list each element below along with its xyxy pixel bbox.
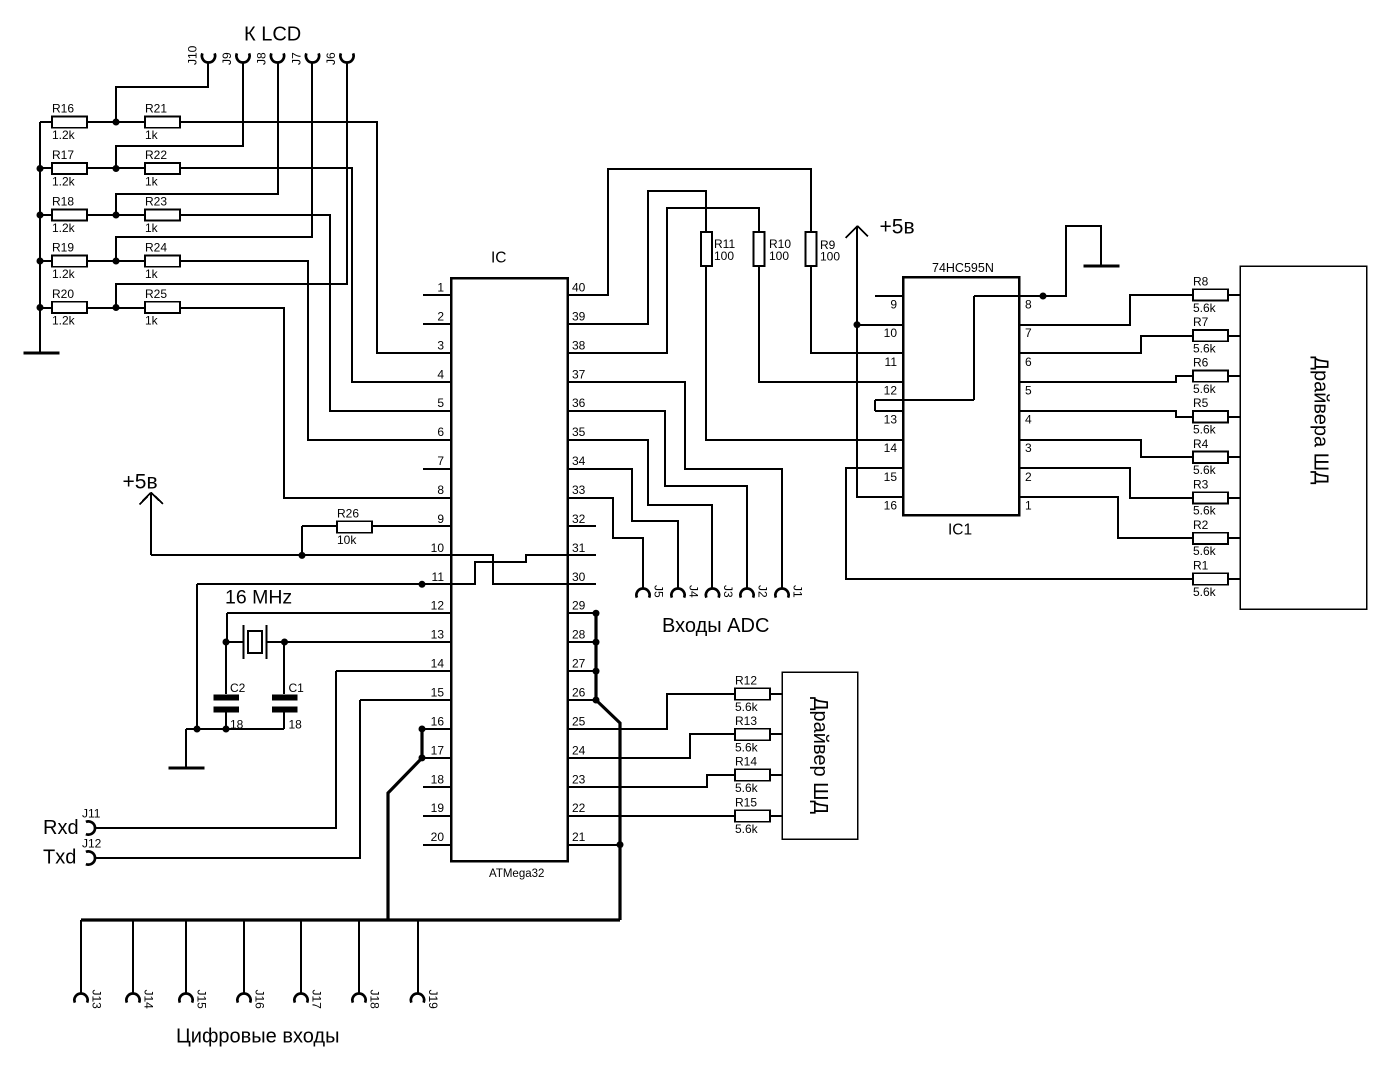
svg-text:R12: R12	[735, 674, 757, 688]
svg-text:R24: R24	[145, 241, 167, 255]
svg-text:R22: R22	[145, 148, 167, 162]
svg-text:74HC595N: 74HC595N	[932, 261, 994, 275]
svg-text:25: 25	[572, 714, 586, 728]
svg-text:39: 39	[572, 309, 586, 323]
svg-text:22: 22	[572, 801, 586, 815]
svg-text:К LCD: К LCD	[244, 24, 301, 46]
svg-text:Входы ADC: Входы ADC	[662, 615, 769, 637]
svg-text:1k: 1k	[145, 313, 159, 327]
svg-text:5.6k: 5.6k	[735, 781, 759, 795]
svg-text:R18: R18	[52, 195, 74, 209]
svg-text:5.6k: 5.6k	[1193, 463, 1217, 477]
svg-text:37: 37	[572, 367, 586, 381]
svg-text:27: 27	[572, 657, 586, 671]
svg-text:5.6k: 5.6k	[735, 822, 759, 836]
svg-text:5.6k: 5.6k	[1193, 504, 1217, 518]
svg-text:5: 5	[437, 396, 444, 410]
svg-text:23: 23	[572, 772, 586, 786]
svg-text:R14: R14	[735, 755, 757, 769]
svg-text:1.2k: 1.2k	[52, 174, 76, 188]
svg-text:J8: J8	[255, 52, 269, 65]
svg-text:R15: R15	[735, 796, 757, 810]
svg-text:J2: J2	[756, 585, 770, 598]
svg-text:4: 4	[437, 367, 444, 381]
svg-text:16: 16	[884, 498, 898, 512]
svg-text:19: 19	[431, 801, 445, 815]
svg-text:R4: R4	[1193, 437, 1209, 451]
svg-text:J5: J5	[652, 585, 666, 598]
svg-text:6: 6	[437, 425, 444, 439]
svg-text:100: 100	[769, 249, 789, 263]
svg-text:3: 3	[1025, 441, 1032, 455]
svg-text:4: 4	[1025, 412, 1032, 426]
svg-text:J7: J7	[290, 52, 304, 65]
svg-text:R5: R5	[1193, 396, 1209, 410]
svg-text:14: 14	[431, 657, 445, 671]
svg-text:17: 17	[431, 743, 445, 757]
svg-text:1: 1	[437, 281, 444, 295]
svg-text:+5в: +5в	[880, 216, 915, 239]
svg-text:12: 12	[884, 384, 898, 398]
svg-text:100: 100	[820, 250, 840, 264]
svg-text:40: 40	[572, 281, 586, 295]
svg-text:J14: J14	[142, 990, 156, 1010]
svg-text:R2: R2	[1193, 518, 1209, 532]
svg-text:15: 15	[884, 470, 898, 484]
svg-text:5.6k: 5.6k	[1193, 423, 1217, 437]
svg-text:11: 11	[432, 570, 445, 584]
svg-text:R17: R17	[52, 148, 74, 162]
svg-text:29: 29	[572, 599, 586, 613]
svg-text:C2: C2	[230, 681, 246, 695]
svg-text:R21: R21	[145, 102, 167, 116]
svg-text:10: 10	[884, 326, 898, 340]
svg-text:IC1: IC1	[948, 522, 972, 539]
svg-text:30: 30	[572, 570, 586, 584]
svg-text:12: 12	[431, 599, 445, 613]
svg-text:36: 36	[572, 396, 586, 410]
svg-text:J6: J6	[324, 52, 338, 65]
svg-text:6: 6	[1025, 355, 1032, 369]
svg-text:5.6k: 5.6k	[1193, 382, 1217, 396]
svg-text:1k: 1k	[145, 128, 159, 142]
svg-text:7: 7	[437, 454, 444, 468]
svg-text:11: 11	[885, 355, 898, 369]
svg-text:1k: 1k	[145, 221, 159, 235]
svg-text:C1: C1	[289, 681, 305, 695]
svg-text:J19: J19	[426, 990, 440, 1010]
svg-text:24: 24	[572, 743, 586, 757]
svg-text:J3: J3	[721, 585, 735, 598]
svg-text:16: 16	[431, 714, 445, 728]
svg-text:R25: R25	[145, 287, 167, 301]
svg-text:21: 21	[572, 830, 586, 844]
svg-text:R26: R26	[337, 507, 359, 521]
svg-text:J16: J16	[253, 990, 267, 1010]
svg-text:18: 18	[289, 718, 303, 732]
svg-text:31: 31	[572, 541, 586, 555]
svg-text:R16: R16	[52, 102, 74, 116]
svg-text:IC: IC	[491, 250, 507, 267]
svg-text:9: 9	[437, 512, 444, 526]
svg-text:1.2k: 1.2k	[52, 267, 76, 281]
svg-text:R3: R3	[1193, 477, 1209, 491]
svg-text:J15: J15	[195, 990, 209, 1010]
svg-text:Драйвера ШД: Драйвера ШД	[1310, 356, 1332, 485]
svg-text:1: 1	[1025, 498, 1032, 512]
svg-text:8: 8	[437, 483, 444, 497]
svg-text:5: 5	[1025, 384, 1032, 398]
svg-text:Rxd: Rxd	[43, 817, 79, 839]
svg-text:10k: 10k	[337, 533, 357, 547]
svg-text:100: 100	[714, 249, 734, 263]
svg-text:Драйвер ШД: Драйвер ШД	[809, 697, 831, 814]
svg-text:1.2k: 1.2k	[52, 313, 76, 327]
svg-text:1.2k: 1.2k	[52, 221, 76, 235]
svg-text:1.2k: 1.2k	[52, 128, 76, 142]
svg-text:5.6k: 5.6k	[1193, 301, 1217, 315]
svg-text:+5в: +5в	[123, 471, 158, 494]
svg-text:R6: R6	[1193, 356, 1209, 370]
svg-text:10: 10	[431, 541, 445, 555]
svg-text:J18: J18	[368, 990, 382, 1010]
svg-text:J1: J1	[791, 585, 805, 598]
svg-text:Цифровые входы: Цифровые входы	[176, 1026, 339, 1048]
svg-text:J12: J12	[82, 837, 102, 851]
svg-text:13: 13	[431, 628, 445, 642]
svg-text:J4: J4	[687, 585, 701, 598]
svg-text:9: 9	[890, 298, 897, 312]
svg-text:7: 7	[1025, 326, 1032, 340]
svg-text:R13: R13	[735, 714, 757, 728]
svg-text:R8: R8	[1193, 275, 1209, 289]
svg-text:J9: J9	[220, 52, 234, 65]
svg-text:13: 13	[884, 412, 898, 426]
svg-text:20: 20	[431, 830, 445, 844]
svg-text:ATMega32: ATMega32	[489, 868, 544, 880]
svg-text:R19: R19	[52, 241, 74, 255]
svg-text:R1: R1	[1193, 559, 1209, 573]
svg-text:2: 2	[437, 309, 444, 323]
svg-text:26: 26	[572, 686, 586, 700]
svg-text:8: 8	[1025, 298, 1032, 312]
svg-text:Txd: Txd	[43, 847, 76, 869]
svg-text:R23: R23	[145, 195, 167, 209]
svg-text:R7: R7	[1193, 315, 1209, 329]
svg-text:3: 3	[437, 338, 444, 352]
svg-text:J17: J17	[310, 990, 324, 1010]
svg-text:16 MHz: 16 MHz	[225, 587, 292, 609]
svg-text:5.6k: 5.6k	[735, 700, 759, 714]
svg-text:5.6k: 5.6k	[1193, 341, 1217, 355]
svg-text:J10: J10	[186, 45, 200, 65]
svg-text:35: 35	[572, 425, 586, 439]
svg-text:5.6k: 5.6k	[1193, 585, 1217, 599]
svg-text:2: 2	[1025, 470, 1032, 484]
svg-text:15: 15	[431, 686, 445, 700]
svg-text:1k: 1k	[145, 267, 159, 281]
svg-text:18: 18	[431, 772, 445, 786]
svg-text:J13: J13	[90, 990, 104, 1010]
svg-text:18: 18	[230, 718, 244, 732]
svg-text:5.6k: 5.6k	[1193, 544, 1217, 558]
svg-text:38: 38	[572, 338, 586, 352]
svg-text:32: 32	[572, 512, 586, 526]
svg-text:33: 33	[572, 483, 586, 497]
svg-text:34: 34	[572, 454, 586, 468]
svg-text:14: 14	[884, 441, 898, 455]
svg-text:1k: 1k	[145, 174, 159, 188]
svg-text:5.6k: 5.6k	[735, 740, 759, 754]
svg-text:J11: J11	[82, 807, 101, 821]
svg-text:28: 28	[572, 628, 586, 642]
svg-text:R20: R20	[52, 287, 74, 301]
